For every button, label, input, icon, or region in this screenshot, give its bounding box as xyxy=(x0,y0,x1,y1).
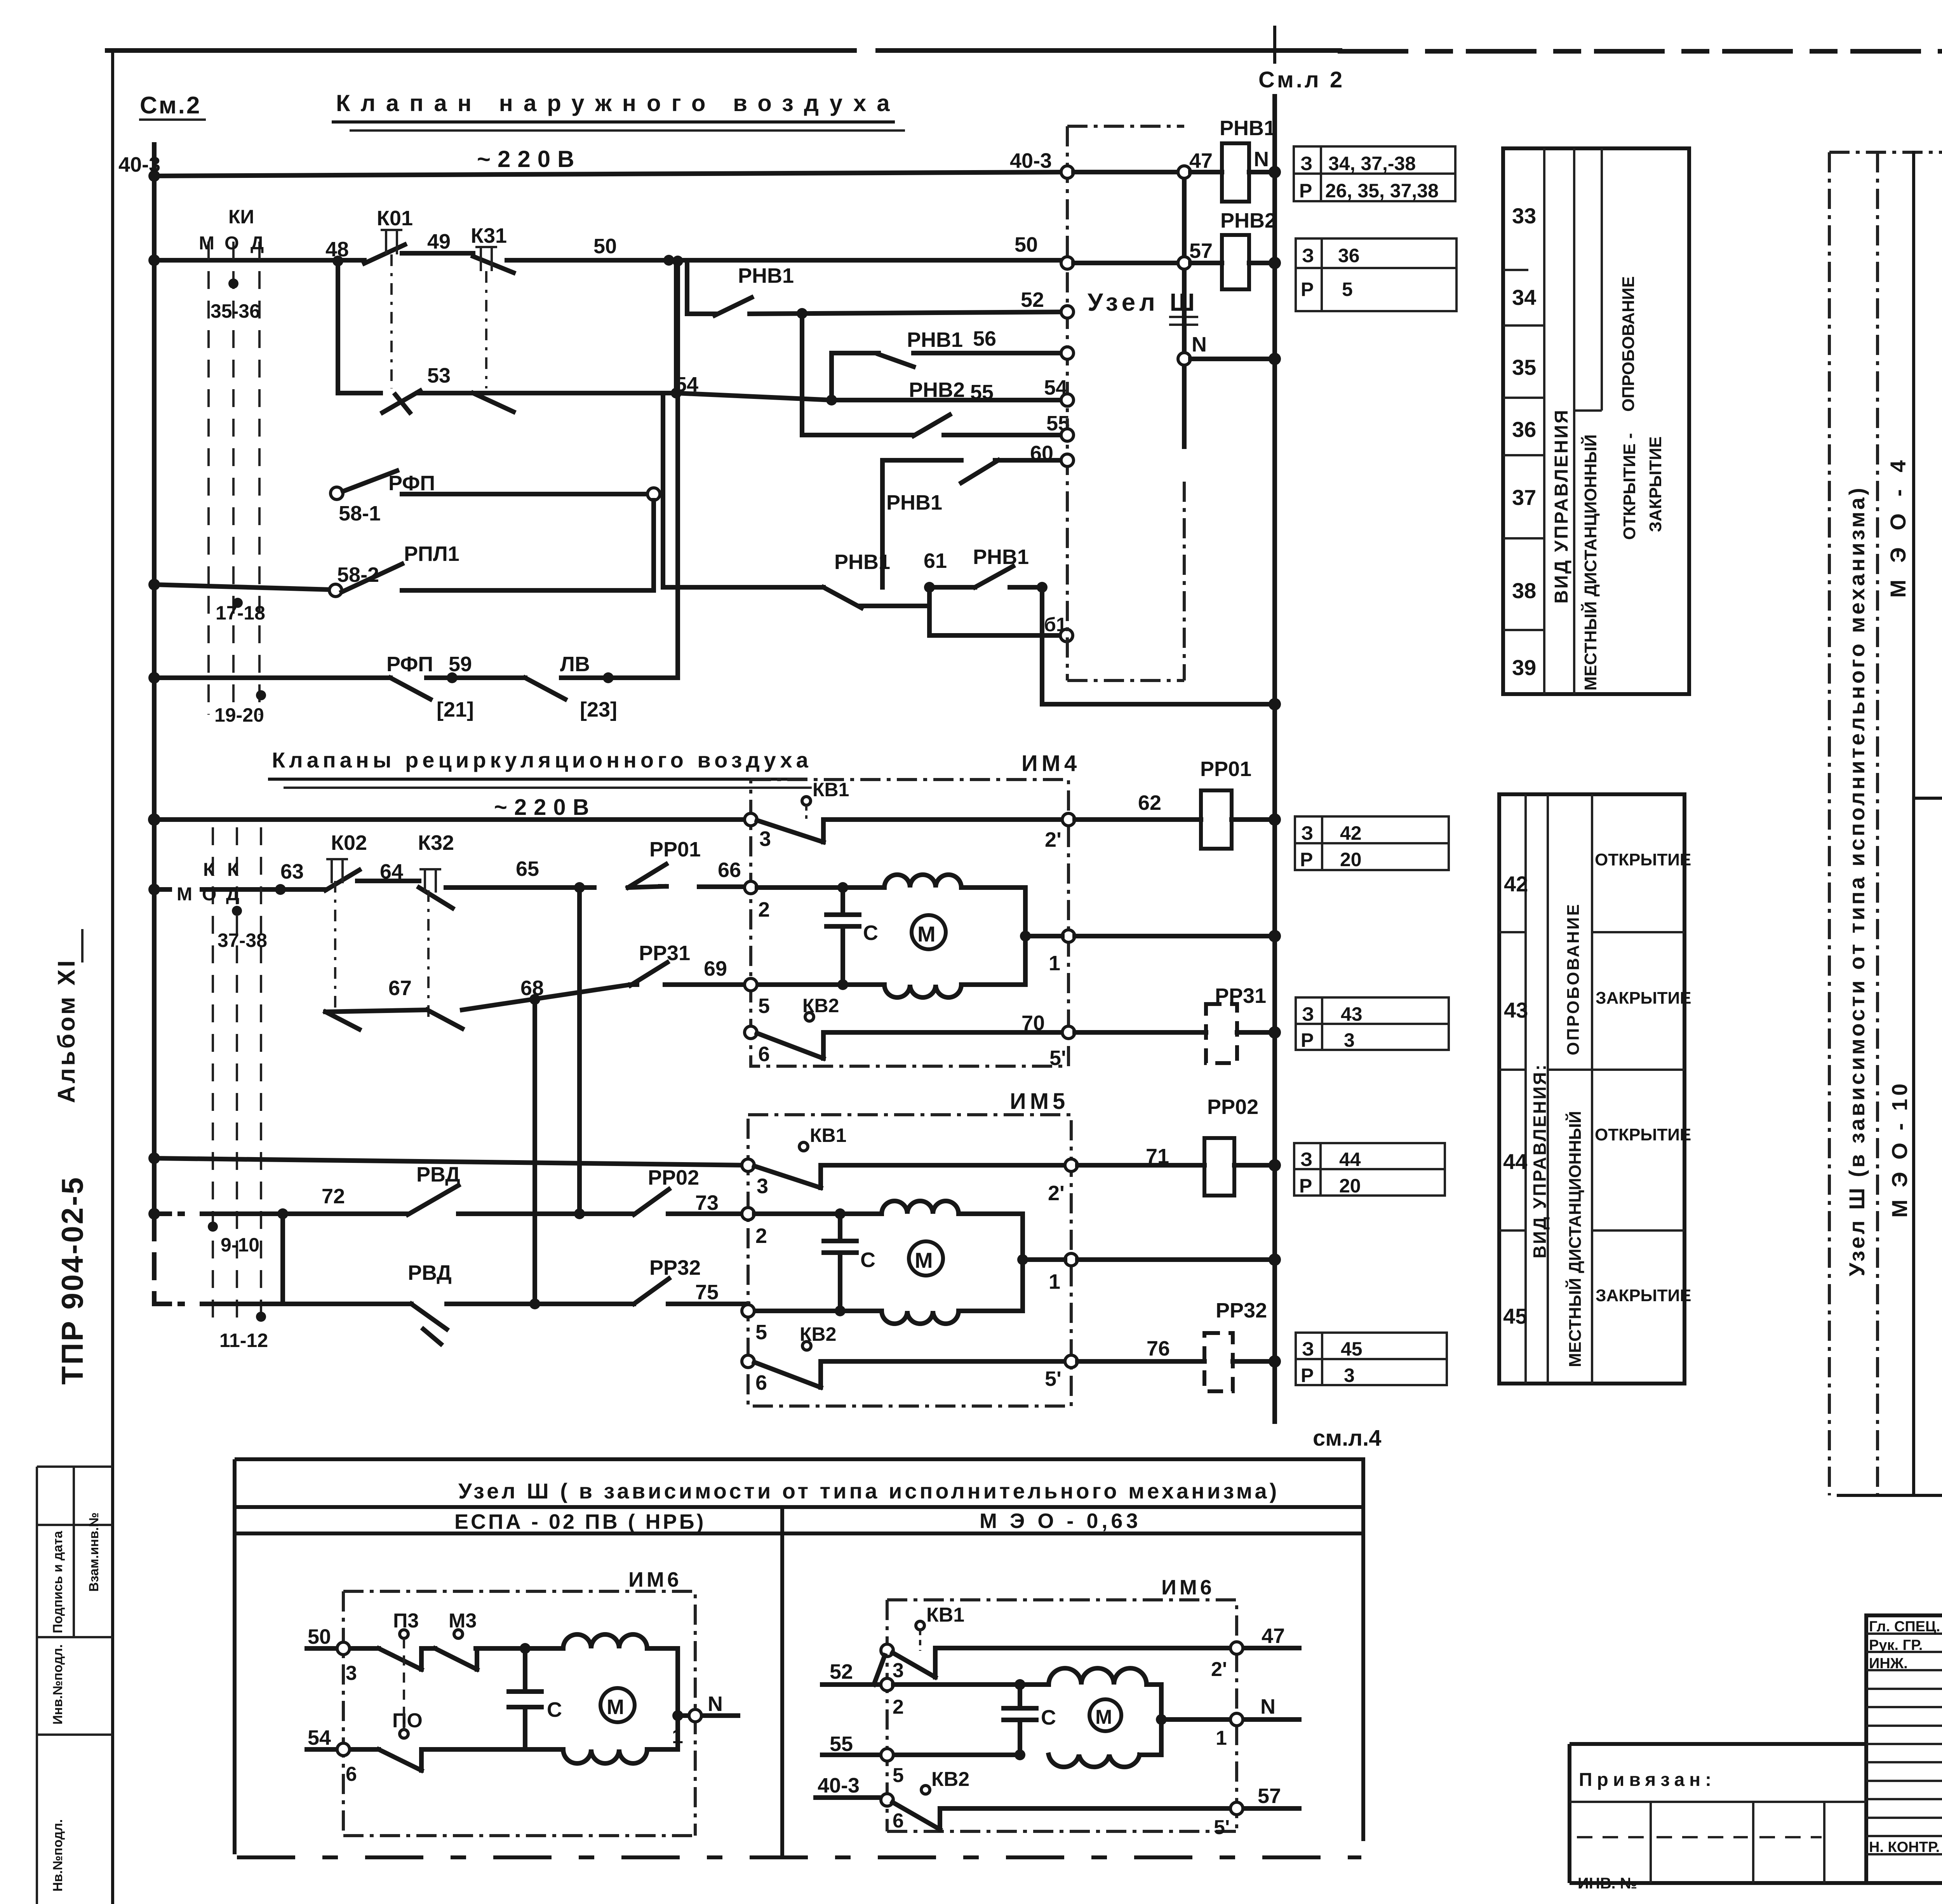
node bus row1 xyxy=(148,170,160,182)
svg-text:33: 33 xyxy=(1512,204,1536,228)
svg-text:34, 37,-38: 34, 37,-38 xyxy=(1328,153,1416,174)
svg-text:69: 69 xyxy=(704,957,727,980)
KK MOD dashed columns xyxy=(213,827,261,1328)
table frame xyxy=(1503,148,1689,694)
contact KV2 IM5 xyxy=(754,1361,1071,1387)
terminal 50 xyxy=(1061,257,1074,269)
coil top IM5 xyxy=(882,1201,959,1214)
meo terminal 57 xyxy=(1230,1802,1243,1815)
coil RP02 xyxy=(1204,1138,1234,1196)
terminal 47 xyxy=(1178,166,1190,178)
svg-text:РР32: РР32 xyxy=(1216,1299,1267,1322)
svg-text:1: 1 xyxy=(1049,1270,1060,1293)
svg-text:РНВ1: РНВ1 xyxy=(738,264,794,287)
contact RVD xyxy=(408,1185,458,1215)
wire row 71 xyxy=(1077,1163,1275,1168)
KV1 pin IM5 xyxy=(799,1142,808,1151)
svg-text:62: 62 xyxy=(1138,791,1161,815)
svg-text:ЗАКРЫТИЕ: ЗАКРЫТИЕ xyxy=(1596,989,1691,1008)
svg-text:Клапан наружного воздуха: Клапан наружного воздуха xyxy=(336,90,900,116)
node row2 x1745 xyxy=(672,256,683,266)
meo row2 wire xyxy=(893,1682,1049,1687)
IM5 edge terminal 5' xyxy=(1065,1355,1077,1368)
svg-text:N: N xyxy=(708,1692,723,1716)
svg-text:47: 47 xyxy=(1262,1624,1285,1648)
meo capacitor xyxy=(1004,1685,1036,1755)
wire riser 68 node down to row75 xyxy=(532,999,537,1304)
svg-text:К31: К31 xyxy=(471,224,507,247)
svg-text:ИНЖ.: ИНЖ. xyxy=(1869,1655,1908,1672)
svg-text:З: З xyxy=(1302,245,1314,266)
wire inside uzel3 row1 xyxy=(1074,170,1178,174)
espa capacitor xyxy=(509,1648,541,1749)
wire term5 row IM5 xyxy=(754,1309,882,1313)
uzel III dashed box bottom edge xyxy=(1067,679,1184,682)
node cap top meo xyxy=(1015,1679,1025,1690)
svg-text:3: 3 xyxy=(1344,1029,1355,1051)
svg-text:Инв.№подл.: Инв.№подл. xyxy=(50,1644,65,1725)
svg-text:К: К xyxy=(203,860,215,880)
svg-text:РПЛ1: РПЛ1 xyxy=(404,542,459,566)
wire row 40-3 xyxy=(154,172,1067,176)
svg-text:55: 55 xyxy=(970,381,994,404)
node on N bus y1813 xyxy=(1269,698,1281,710)
contact RNV1 row61 left xyxy=(823,587,861,608)
svg-text:РНВ1: РНВ1 xyxy=(834,550,890,574)
svg-text:20: 20 xyxy=(1340,849,1362,870)
svg-text:26, 35, 37,38: 26, 35, 37,38 xyxy=(1325,180,1439,202)
motor loop right IM4 xyxy=(961,888,1025,985)
IM5 terminal 2 xyxy=(742,1208,754,1220)
bottom line xyxy=(1838,1494,1942,1497)
svg-text:см.л.4: см.л.4 xyxy=(1313,1425,1382,1451)
svg-text:Гл. СПЕЦ.: Гл. СПЕЦ. xyxy=(1869,1619,1940,1635)
svg-text:3: 3 xyxy=(893,1659,904,1682)
uzel III dashed box top edge xyxy=(1067,125,1184,128)
svg-text:ОТКРЫТИЕ: ОТКРЫТИЕ xyxy=(1595,850,1691,869)
svg-text:РР31: РР31 xyxy=(1215,984,1266,1008)
wire 61 to terminal b1 xyxy=(929,587,1060,635)
contact K01 xyxy=(364,245,405,263)
contact K01 lower xyxy=(383,391,420,412)
node cap bottom IM5 xyxy=(835,1305,846,1316)
terminal 52 xyxy=(1061,306,1074,318)
wire drop node48 to row53 xyxy=(336,261,340,393)
svg-text:КВ1: КВ1 xyxy=(813,779,849,801)
K02 actuator tee xyxy=(326,859,348,883)
node on MOD column 19-20 xyxy=(256,690,266,700)
svg-text:См.л 2: См.л 2 xyxy=(1258,67,1345,92)
rotated MESTNYJ DISTANCIONNYJ xyxy=(1580,434,1600,691)
contact RP32 xyxy=(634,1279,669,1304)
meo row 57 xyxy=(940,1806,1299,1811)
contact RNV1 row61 right xyxy=(975,566,1013,587)
svg-text:ОПРОБОВАНИЕ: ОПРОБОВАНИЕ xyxy=(1564,903,1583,1055)
espa coil top xyxy=(563,1634,678,1648)
privyazan inner lines xyxy=(1570,1802,1866,1883)
ref table T4 xyxy=(1296,997,1449,1050)
IM5 terminal 3 xyxy=(742,1159,754,1171)
svg-text:М: М xyxy=(915,1248,933,1272)
svg-text:57: 57 xyxy=(1189,239,1213,263)
svg-text:71: 71 xyxy=(1146,1145,1169,1168)
IM5 motor node xyxy=(1017,1254,1028,1265)
svg-text:РНВ2: РНВ2 xyxy=(909,378,965,402)
svg-text:М Э О - 10: М Э О - 10 xyxy=(1887,1081,1912,1218)
svg-text:М: М xyxy=(177,884,192,905)
espa right loop xyxy=(675,1648,680,1749)
espa terminal 3 xyxy=(337,1642,350,1655)
svg-text:61: 61 xyxy=(924,549,947,573)
wire long row to IM5 term3 xyxy=(154,1158,748,1165)
IM5 dashed box xyxy=(748,1115,1071,1406)
svg-text:МЕСТНЫЙ ДИСТАНЦИОННЫЙ: МЕСТНЫЙ ДИСТАНЦИОННЫЙ xyxy=(1580,434,1600,691)
coil bottom IM4 xyxy=(884,985,961,997)
node row52 xyxy=(797,308,807,319)
espa motor M xyxy=(600,1688,635,1722)
svg-text:40-3: 40-3 xyxy=(118,153,160,176)
panel divider horizontal xyxy=(1914,797,1942,800)
meo motor M xyxy=(1089,1699,1121,1731)
contact K02 lower xyxy=(325,1012,359,1029)
svg-text:70: 70 xyxy=(1021,1011,1045,1035)
svg-text:5': 5' xyxy=(1214,1816,1230,1839)
svg-text:РФП: РФП xyxy=(388,472,435,495)
svg-text:5: 5 xyxy=(1342,278,1353,300)
contact RFP xyxy=(390,678,430,699)
wire riser 65 node down to row72 xyxy=(577,888,582,1214)
svg-text:35: 35 xyxy=(1512,355,1536,379)
IM4 terminal 2 xyxy=(745,881,757,894)
terminal right 58-1 xyxy=(647,488,660,500)
coil RNV2 xyxy=(1222,235,1249,289)
wire N to bus xyxy=(1190,357,1275,361)
svg-text:МЕСТНЫЙ ДИСТАНЦИОННЫЙ: МЕСТНЫЙ ДИСТАНЦИОННЫЙ xyxy=(1565,1111,1585,1367)
coil top IM4 xyxy=(884,875,961,888)
reference tick through border xyxy=(1273,27,1276,62)
node bus 62 xyxy=(1269,813,1281,826)
row lines xyxy=(1499,932,1684,1230)
IM5 terminal 6 xyxy=(742,1355,754,1368)
terminal N xyxy=(1178,353,1190,365)
node cap top IM5 xyxy=(835,1208,846,1219)
svg-text:Альбом XI: Альбом XI xyxy=(53,958,80,1103)
espa coil bottom xyxy=(563,1749,678,1763)
svg-text:КВ1: КВ1 xyxy=(810,1124,846,1146)
svg-text:РФП: РФП xyxy=(386,653,433,676)
svg-text:66: 66 xyxy=(718,858,741,882)
svg-text:К01: К01 xyxy=(377,207,413,230)
outer dash-dot box xyxy=(1829,152,1942,1495)
wire term2 IM5 xyxy=(754,1211,882,1216)
terminal 60 xyxy=(1061,454,1074,466)
svg-text:11-12: 11-12 xyxy=(219,1330,268,1351)
sheet top border xyxy=(107,48,1340,53)
wire row 58-1 xyxy=(402,492,647,496)
motor M IM4 xyxy=(912,915,946,949)
contact K32 lower xyxy=(427,1010,462,1029)
svg-text:С: С xyxy=(547,1698,562,1721)
svg-text:~220В: ~220В xyxy=(477,146,581,172)
coil RNV1 xyxy=(1222,143,1249,202)
svg-text:45: 45 xyxy=(1341,1338,1363,1360)
svg-text:ИМ6: ИМ6 xyxy=(1161,1576,1215,1599)
svg-text:ВИД УПРАВЛЕНИЯ:: ВИД УПРАВЛЕНИЯ: xyxy=(1530,1063,1550,1258)
node bus 70 xyxy=(1269,1026,1281,1039)
svg-text:КВ2: КВ2 xyxy=(931,1768,969,1791)
svg-text:1: 1 xyxy=(1049,952,1060,975)
svg-text:КИ: КИ xyxy=(228,206,254,228)
node row72 x728 xyxy=(277,1208,288,1219)
svg-text:64: 64 xyxy=(380,860,403,883)
wire row 72 xyxy=(154,1211,183,1216)
svg-text:55: 55 xyxy=(830,1732,853,1756)
IM4 edge terminal 2' xyxy=(1062,813,1075,826)
svg-text:М Э О - 0,63: М Э О - 0,63 xyxy=(980,1509,1142,1533)
svg-text:63: 63 xyxy=(280,860,304,883)
svg-text:ИНВ. №: ИНВ. № xyxy=(1578,1875,1637,1892)
contact LV xyxy=(525,678,565,699)
contact RNV1 row60 xyxy=(961,460,998,483)
slant 52 to term3 xyxy=(874,1655,885,1685)
KV2 pin xyxy=(805,1013,814,1021)
svg-text:50: 50 xyxy=(1015,233,1038,256)
wire row 67-68-69 xyxy=(325,985,745,1012)
svg-text:С: С xyxy=(1041,1706,1056,1729)
KV1 pin xyxy=(802,797,811,805)
terminal 58-1 xyxy=(331,487,343,499)
IM4 motor node xyxy=(1020,931,1031,942)
svg-text:Д: Д xyxy=(226,884,239,905)
link dash P3-PO xyxy=(403,1638,405,1730)
contact K31 lower xyxy=(473,393,513,412)
svg-text:20: 20 xyxy=(1339,1175,1361,1197)
ESPA IM6 dash box xyxy=(343,1591,695,1836)
svg-text:Привязан:: Привязан: xyxy=(1579,1770,1716,1790)
IM5 terminal 5 xyxy=(742,1305,754,1317)
svg-text:РНВ1: РНВ1 xyxy=(973,545,1029,569)
wire 57 to coil to N bus xyxy=(1190,261,1275,265)
svg-text:РР31: РР31 xyxy=(639,942,690,965)
svg-text:Р: Р xyxy=(1301,1029,1314,1051)
contact KV1 IM5 xyxy=(754,1165,883,1188)
svg-text:54: 54 xyxy=(308,1726,331,1749)
svg-text:~220В: ~220В xyxy=(494,795,596,820)
node row72 x1492 xyxy=(574,1208,585,1219)
svg-text:С: С xyxy=(860,1248,875,1272)
meo terminal 47 xyxy=(1230,1642,1243,1654)
K01 actuator tee xyxy=(381,230,402,254)
terminal 57 xyxy=(1178,257,1190,269)
svg-text:РНВ1: РНВ1 xyxy=(886,491,942,514)
svg-text:36: 36 xyxy=(1338,245,1360,266)
svg-text:ОТКРЫТИЕ -: ОТКРЫТИЕ - xyxy=(1620,433,1639,540)
motor loop right IM5 xyxy=(959,1214,1023,1311)
wire riser row53 to row2 xyxy=(674,261,679,393)
svg-text:М Э О - 4: М Э О - 4 xyxy=(1886,455,1910,598)
svg-text:Н. КОНТР.: Н. КОНТР. xyxy=(1869,1839,1940,1855)
privyazan box xyxy=(1570,1744,1942,1883)
sidebar label Album XI xyxy=(53,958,80,1103)
meo terminal 5 xyxy=(881,1749,893,1761)
IM4 terminal 5 xyxy=(745,978,757,991)
terminal 56 xyxy=(1061,347,1074,359)
wire bus2 220V to IM4 xyxy=(154,817,751,822)
terminal circle b1 xyxy=(1060,629,1073,642)
node N bus row3 xyxy=(1269,353,1281,365)
wire row 61 xyxy=(663,587,1042,606)
node 59 xyxy=(447,672,458,683)
node 63 xyxy=(275,884,286,895)
terminal 54 xyxy=(1061,394,1074,406)
svg-text:9-10: 9-10 xyxy=(221,1234,259,1256)
svg-text:РНВ1: РНВ1 xyxy=(907,328,963,352)
wire row 53-54 xyxy=(338,393,1067,400)
contact KV1 IM4 xyxy=(757,820,886,842)
wire 47 to coil to N bus xyxy=(1190,170,1275,174)
svg-text:К: К xyxy=(227,860,239,880)
svg-text:КВ2: КВ2 xyxy=(800,1323,836,1345)
sidebar label TPR 904-02-5 xyxy=(55,1176,89,1385)
rotated label MEO-4 xyxy=(1886,455,1910,598)
node on MOD column xyxy=(228,278,238,289)
svg-text:6: 6 xyxy=(893,1810,904,1832)
contact RP01 xyxy=(628,864,666,888)
header line 2 xyxy=(235,1532,1363,1535)
svg-text:42: 42 xyxy=(1504,872,1528,896)
ref table T2 xyxy=(1296,238,1456,311)
wire row 56 xyxy=(832,353,1067,367)
wire row 60 xyxy=(882,458,1067,463)
rotated OPROBOVANIE xyxy=(1619,276,1638,412)
svg-text:РНВ2: РНВ2 xyxy=(1220,209,1276,232)
wire row 63-64-65-66 xyxy=(154,887,179,892)
IM4 edge terminal 5' xyxy=(1062,1026,1075,1039)
svg-text:С: С xyxy=(863,921,878,945)
uzel3 right edge wire 47-57-N xyxy=(1182,172,1187,447)
svg-text:О: О xyxy=(224,233,239,254)
rotated OPROBOVANIE xyxy=(1564,903,1583,1055)
contact RPL1 xyxy=(342,564,402,592)
wire 61 drop to N bus xyxy=(1042,587,1275,704)
meo row 52 xyxy=(822,1682,887,1687)
rotated MESTNYJ DISTANCIONNYJ xyxy=(1565,1111,1585,1367)
svg-text:35-36: 35-36 xyxy=(211,300,260,322)
rotated ZAKRYTIE xyxy=(1646,437,1665,532)
svg-text:2: 2 xyxy=(893,1696,904,1718)
wire row 76 xyxy=(1077,1359,1275,1364)
terminal 40-3 xyxy=(1061,166,1074,178)
svg-text:РВД: РВД xyxy=(408,1261,452,1284)
svg-text:53: 53 xyxy=(427,364,451,387)
svg-text:Клапаны рециркуляционного возд: Клапаны рециркуляционного воздуха xyxy=(272,748,812,772)
inner column line solid xyxy=(1912,152,1915,1495)
svg-text:К02: К02 xyxy=(331,831,367,855)
espa terminal 6 xyxy=(337,1743,350,1756)
svg-text:52: 52 xyxy=(830,1660,853,1683)
svg-text:67: 67 xyxy=(388,976,412,1000)
svg-text:РВД: РВД xyxy=(416,1163,460,1186)
svg-text:57: 57 xyxy=(1258,1784,1281,1808)
svg-text:43: 43 xyxy=(1504,998,1528,1022)
svg-text:45: 45 xyxy=(1503,1304,1527,1328)
svg-text:19-20: 19-20 xyxy=(214,704,264,726)
svg-text:К32: К32 xyxy=(418,831,454,855)
svg-text:РР02: РР02 xyxy=(648,1166,699,1189)
contact P3 xyxy=(379,1648,421,1669)
svg-text:37: 37 xyxy=(1512,485,1536,510)
svg-text:42: 42 xyxy=(1340,822,1362,844)
table frame xyxy=(1499,794,1684,1384)
svg-text:[23]: [23] xyxy=(580,698,617,721)
wire KV1 to edge 2' xyxy=(886,817,1068,822)
IM5 edge terminal 2' xyxy=(1065,1159,1077,1171)
contact RNV2 row55 xyxy=(914,415,950,436)
contact M3 xyxy=(435,1648,477,1669)
node on col 11-12 xyxy=(256,1312,266,1322)
wire row 75 xyxy=(154,1302,183,1306)
contact RFP 58-1 xyxy=(343,471,397,491)
node row61 xyxy=(924,582,935,593)
terminal 55 xyxy=(1061,429,1074,441)
svg-text:ИМ5: ИМ5 xyxy=(1010,1089,1069,1114)
meo terminal 3 xyxy=(881,1644,893,1657)
node bus row 58-2 xyxy=(148,579,160,590)
rotated label Uzel III (v zavisimosti...) xyxy=(1845,486,1869,1276)
meo row 47 xyxy=(936,1646,1299,1650)
svg-text:РР01: РР01 xyxy=(649,838,701,861)
svg-text:59: 59 xyxy=(449,653,472,676)
svg-text:[21]: [21] xyxy=(437,698,474,721)
svg-text:ЗАКРЫТИЕ: ЗАКРЫТИЕ xyxy=(1646,437,1665,532)
wire term2 to motor loop xyxy=(757,885,884,890)
espa node right xyxy=(672,1710,683,1721)
IM4 dashed box xyxy=(751,780,1068,1066)
wire riser 54 to 56 xyxy=(829,353,834,400)
wire row 48-49-50 xyxy=(154,253,1067,263)
svg-text:17-18: 17-18 xyxy=(216,602,265,624)
svg-text:РР32: РР32 xyxy=(649,1256,701,1279)
meo coil bottom xyxy=(1049,1755,1161,1767)
svg-text:ЗАКРЫТИЕ: ЗАКРЫТИЕ xyxy=(1596,1286,1691,1305)
coil bottom IM5 xyxy=(882,1311,959,1324)
svg-text:ПО: ПО xyxy=(392,1709,423,1732)
svg-text:73: 73 xyxy=(695,1191,719,1215)
svg-text:Р: Р xyxy=(1299,180,1312,202)
node bus 71 xyxy=(1269,1159,1281,1171)
node 68 riser xyxy=(529,994,540,1005)
svg-text:Узел Ш ( в зависимости от типа: Узел Ш ( в зависимости от типа исполните… xyxy=(458,1479,1279,1503)
ref table T6 xyxy=(1296,1333,1447,1385)
svg-text:36: 36 xyxy=(1512,417,1536,442)
svg-text:ТПР 904-02-5: ТПР 904-02-5 xyxy=(55,1176,89,1385)
contact KV2 IM4 xyxy=(757,1032,1068,1058)
svg-text:1: 1 xyxy=(1216,1727,1227,1749)
node row2 x1722 xyxy=(663,255,674,266)
sheet left frame line xyxy=(111,50,114,1904)
svg-text:Д: Д xyxy=(251,233,264,254)
sidebar rotated small labels xyxy=(50,1530,65,1633)
svg-text:Р: Р xyxy=(1301,278,1314,300)
wire riser 60 to 61 xyxy=(880,460,885,587)
svg-text:65: 65 xyxy=(516,857,539,881)
svg-text:34: 34 xyxy=(1512,285,1536,310)
wire row 55 xyxy=(802,433,1067,437)
node cap top espa xyxy=(520,1643,531,1654)
svg-text:N: N xyxy=(1260,1695,1276,1718)
wire row 62 xyxy=(1075,817,1275,822)
N bus vertical xyxy=(1272,96,1277,1422)
